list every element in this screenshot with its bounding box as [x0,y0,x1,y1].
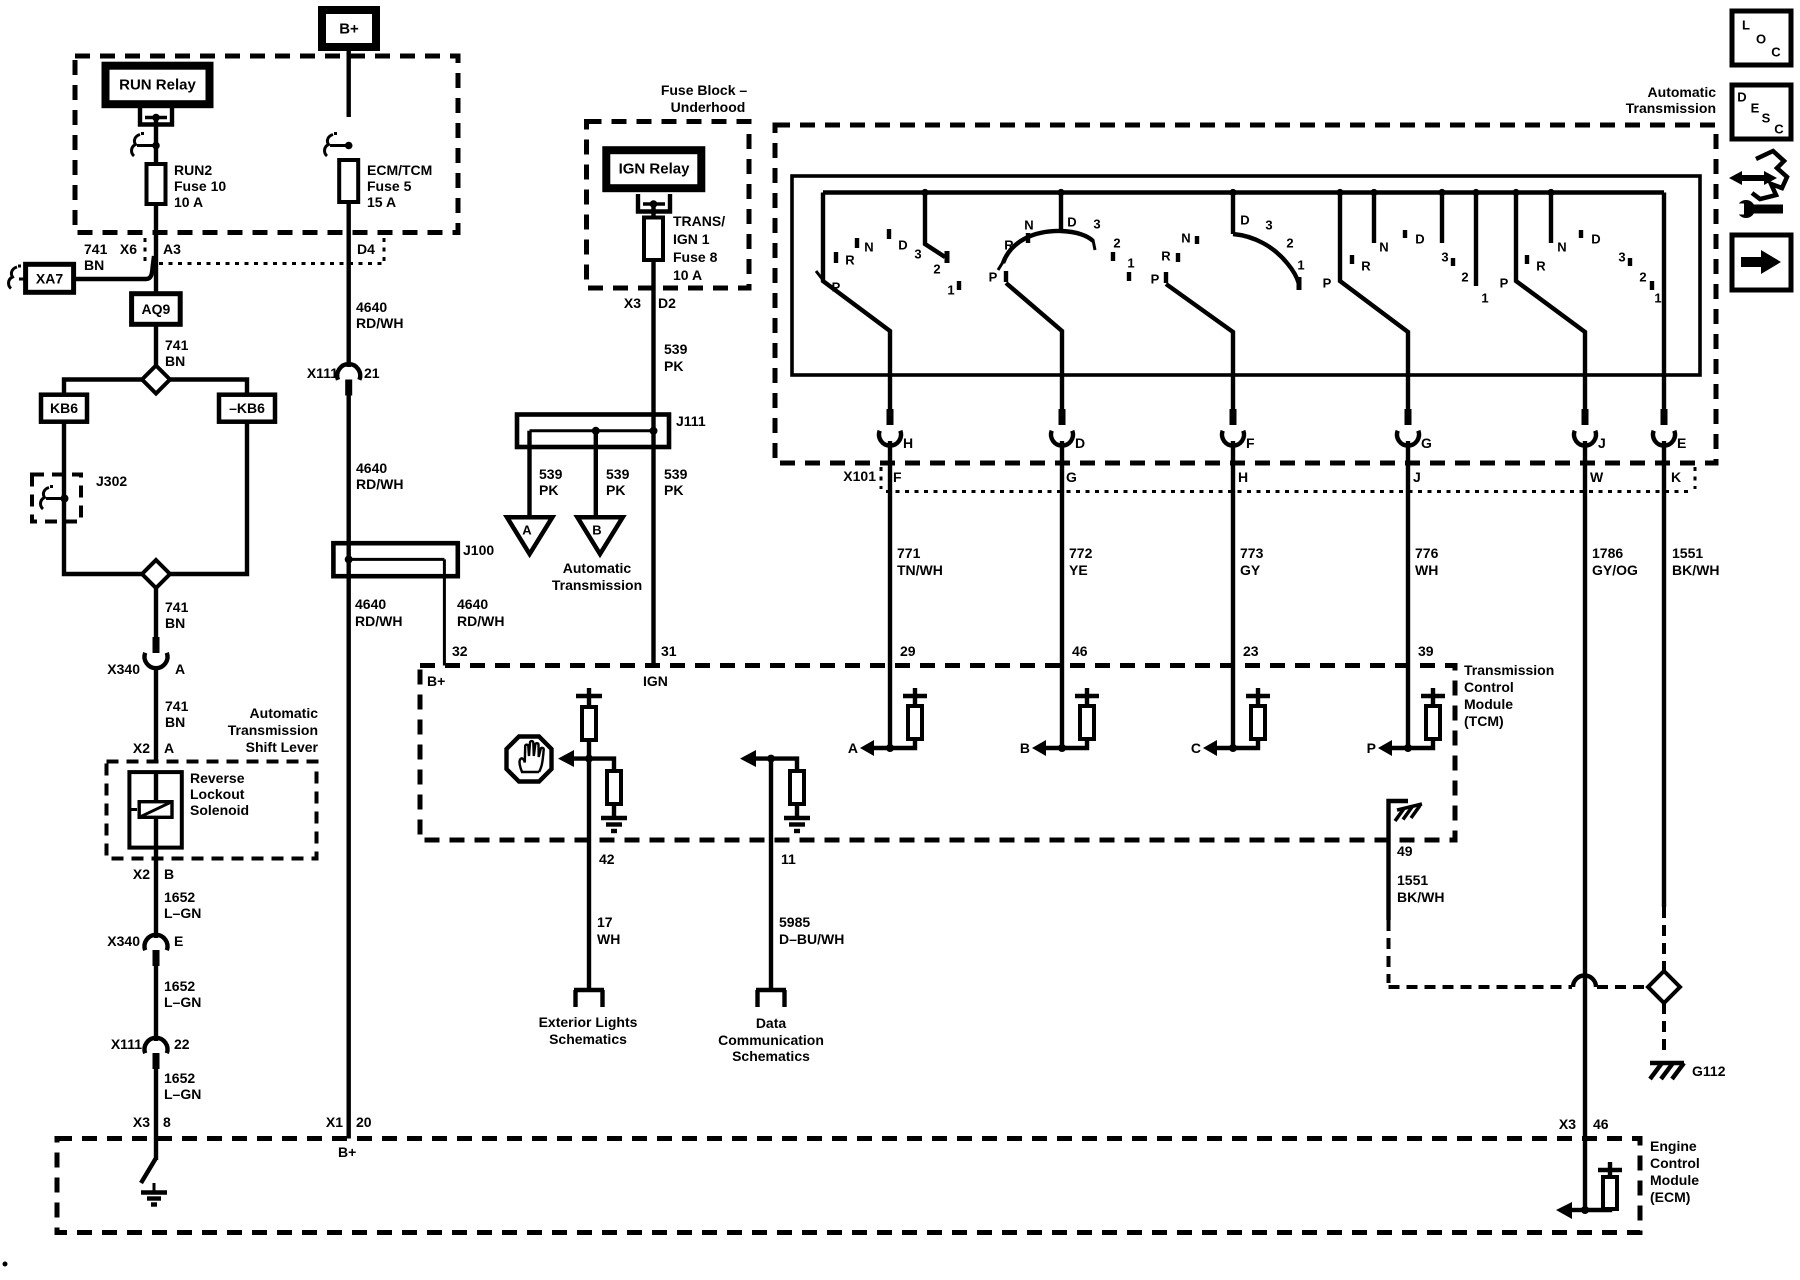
wire 539 PK main run to TCM pin 31 [651,447,655,666]
svg-text:N: N [1557,240,1566,255]
warning hand symbol (octagon) [507,737,552,782]
svg-text:Module: Module [1464,696,1513,712]
bus wire inside range switch [823,190,1664,194]
svg-text:TN/WH: TN/WH [897,562,943,578]
svg-text:Automatic: Automatic [1648,84,1717,100]
svg-text:S: S [1762,111,1771,126]
svg-text:X3: X3 [133,1114,150,1130]
switch group 4 position labels [1323,232,1489,306]
junction diamond (bottom) [142,560,170,588]
svg-text:KB6: KB6 [50,400,78,416]
wire 4640 RD/WH branch to TCM pin 32 [443,559,446,665]
svg-text:B+: B+ [427,673,445,689]
wire 772 YE (D to TCM 46) [1060,441,1064,666]
svg-text:21: 21 [364,365,380,381]
TCM input C (pin 23): pull-up resistor and arrow [1191,666,1270,757]
terminal fork to Exterior Lights Schematics [539,990,638,1047]
TCM chassis ground at pin 49 [1389,801,1423,840]
transmission range switch body (solid box) [792,176,1700,375]
relay IGN Relay label box [606,150,701,188]
svg-text:N: N [1379,240,1388,255]
svg-text:539: 539 [606,466,630,482]
wire 1652 L-GN below solenoid [154,848,158,938]
legend icon LOC [1732,11,1791,65]
svg-text:D: D [1075,435,1085,451]
svg-text:17: 17 [597,914,613,930]
svg-text:5985: 5985 [779,914,810,930]
off-page triangle A (to Automatic Transmission) [507,517,552,554]
fuse TRANS/IGN 1 Fuse 8 10 A [644,213,725,283]
inline connector X340 pin E [107,933,183,966]
wire 741 BN below X340-A [154,668,158,762]
svg-text:BN: BN [84,257,104,273]
switch group 3 position labels [1151,213,1305,287]
svg-text:R: R [1361,259,1371,274]
svg-text:Transmission: Transmission [1626,100,1716,116]
switch group 2 position labels [989,215,1135,285]
svg-text:A: A [175,661,185,677]
svg-text:46: 46 [1593,1116,1609,1132]
svg-text:3: 3 [1093,217,1100,232]
inline connector X340 pin A [107,637,185,677]
svg-text:4640: 4640 [355,596,386,612]
svg-text:X3: X3 [624,295,641,311]
svg-text:8: 8 [163,1114,171,1130]
svg-text:Module: Module [1650,1172,1699,1188]
svg-text:Transmission: Transmission [228,722,318,738]
wire 17 WH (pin 42 to exterior lights) [587,759,591,990]
svg-text:P: P [1323,276,1332,291]
svg-text:R: R [845,253,855,268]
svg-text:2: 2 [1639,270,1646,285]
wire KB6 to lower junction [64,422,142,574]
svg-text:4640: 4640 [457,596,488,612]
svg-text:X6: X6 [120,241,137,257]
svg-text:2: 2 [1113,236,1120,251]
svg-text:P: P [832,280,841,295]
svg-text:22: 22 [174,1036,190,1052]
transmission connector pin E [1653,409,1686,451]
svg-text:Transmission: Transmission [552,577,642,593]
svg-text:49: 49 [1397,843,1413,859]
svg-text:BN: BN [165,714,185,730]
transmission connector pin J [1574,409,1606,451]
svg-text:Solenoid: Solenoid [190,802,249,818]
switch group 1 moving blade [925,193,945,258]
switch group 2 wiper P to output D [1004,271,1008,282]
svg-text:4640: 4640 [356,299,387,315]
legend icon DESC [1732,85,1791,139]
svg-text:PK: PK [664,482,683,498]
junction diamond (top) [142,366,170,394]
svg-text:11: 11 [781,851,796,867]
svg-text:31: 31 [661,643,677,659]
switch group 3 wiper P to output F [1164,272,1168,283]
connector XA7 [9,264,74,292]
fuse ECM/TCM Fuse 5 15 A [339,160,432,210]
svg-text:20: 20 [356,1114,372,1130]
svg-text:Communication: Communication [718,1032,824,1048]
wire fuse RUN2 down to pin A3 [154,204,158,294]
wire 741 BN below AQ9 [154,324,158,366]
wire 1551 BK/WH from TCM pin 49 [1389,840,1650,987]
svg-text:P: P [1500,276,1509,291]
fuse RUN2 Fuse 10 10 A [147,162,227,210]
transmission connector pin H [879,409,913,451]
svg-text:TRANS/: TRANS/ [673,213,725,229]
wire 773 GY (F to TCM 23) [1231,441,1235,666]
svg-text:539: 539 [664,341,688,357]
svg-text:10 A: 10 A [174,194,203,210]
svg-text:H: H [903,435,913,451]
svg-text:X111: X111 [307,365,338,381]
svg-text:D2: D2 [658,295,676,311]
svg-text:GY: GY [1240,562,1261,578]
legend icon tools (arrows and wrench) [1729,151,1787,218]
svg-text:2: 2 [933,262,940,277]
svg-text:RUN2: RUN2 [174,162,212,178]
svg-text:RUN Relay: RUN Relay [119,77,196,94]
svg-text:N: N [1181,231,1190,246]
switch group 5 position labels [1500,232,1662,306]
svg-text:539: 539 [539,466,563,482]
svg-text:WH: WH [1415,562,1438,578]
relay terminal bracket (IGN relay) [638,194,670,212]
terminal fork to Data Communication Schematics [718,990,824,1064]
svg-text:C: C [1771,45,1781,60]
module Engine Control Module ECM (dashed box) [57,1138,1700,1233]
transmission connector pin D [1051,409,1085,451]
relay RUN Relay label box [106,66,210,105]
TCM output 42: resistor from internal rail, warning output [558,688,602,767]
svg-text:AQ9: AQ9 [142,301,171,317]
svg-text:RD/WH: RD/WH [356,476,403,492]
svg-text:23: 23 [1243,643,1259,659]
TCM output 11: arrow and ground resistor [740,750,810,831]
svg-text:X101: X101 [843,468,876,484]
svg-text:X3: X3 [1559,1116,1576,1132]
svg-text:772: 772 [1069,545,1093,561]
fuse clip symbol at RUN2 fuse [132,134,160,157]
splice diamond on 1551 BK/WH [1648,971,1680,1003]
svg-text:R: R [1004,238,1014,253]
svg-text:741: 741 [165,698,189,714]
wire 4640 RD/WH main run to ECM X1-20 [347,576,351,1139]
svg-text:Fuse 8: Fuse 8 [673,249,718,265]
svg-text:R: R [1536,259,1546,274]
wire -KB6 to lower junction [170,422,247,574]
wire IGN relay to fuse 8 [651,204,655,218]
fuse block - underhood (dashed) [587,82,750,288]
svg-text:G: G [1066,469,1077,485]
svg-text:776: 776 [1415,545,1439,561]
svg-text:N: N [1024,218,1033,233]
switch group 1 contact ticks [836,229,959,290]
svg-text:Fuse Block –: Fuse Block – [661,82,748,98]
svg-text:Schematics: Schematics [732,1048,810,1064]
splice AQ9 [132,294,181,325]
svg-text:1551: 1551 [1397,872,1428,888]
svg-text:PK: PK [606,482,625,498]
svg-text:B+: B+ [339,21,359,38]
switch contact to ground inside ECM [141,1158,167,1205]
connector X101 face line [843,467,1695,492]
wire 1652 L-GN below X111-22 [154,1068,158,1160]
svg-text:32: 32 [452,643,468,659]
junction dots on bus [921,189,1554,196]
switch group 3 feed drop and travel arc [1231,193,1235,235]
svg-text:D: D [898,238,907,253]
svg-text:P: P [1151,272,1160,287]
fuse block (left, dashed) [75,56,458,233]
svg-text:B: B [592,523,601,538]
svg-text:741: 741 [165,337,189,353]
svg-text:R: R [1161,249,1171,264]
svg-text:N: N [864,240,873,255]
svg-text:Lockout: Lockout [190,786,245,802]
switch group 4 contact ticks [1352,230,1453,266]
svg-text:A: A [522,523,532,538]
splice pack J100 [333,542,494,576]
svg-text:3: 3 [1265,218,1272,233]
svg-text:1652: 1652 [164,889,195,905]
svg-text:X111: X111 [111,1036,142,1052]
svg-text:BK/WH: BK/WH [1397,889,1444,905]
wire 539 PK branch to triangle B [594,431,598,517]
node KB6 [41,395,87,422]
svg-text:2: 2 [1286,236,1293,251]
component Automatic Transmission (dashed box) [775,84,1716,463]
svg-text:D: D [1067,215,1076,230]
svg-text:E: E [174,933,183,949]
svg-text:XA7: XA7 [36,271,63,287]
svg-text:BN: BN [165,353,185,369]
svg-text:K: K [1671,469,1681,485]
wire contact 1 bus feed to output E [1662,193,1666,412]
svg-text:RD/WH: RD/WH [457,613,504,629]
svg-text:GY/OG: GY/OG [1592,562,1638,578]
svg-text:741: 741 [165,599,189,615]
svg-text:J100: J100 [463,542,494,558]
svg-text:L–GN: L–GN [164,994,201,1010]
svg-text:A: A [848,740,858,756]
wire branch to -KB6 [170,380,247,395]
svg-text:1551: 1551 [1672,545,1703,561]
svg-text:P: P [989,270,998,285]
svg-text:F: F [893,469,902,485]
svg-text:39: 39 [1418,643,1434,659]
svg-text:Automatic: Automatic [563,560,632,576]
switch group 2 travel arc [1003,231,1093,263]
svg-text:Shift Lever: Shift Lever [246,739,319,755]
fuse clip symbol at ECM/TCM fuse [325,134,353,157]
svg-text:L: L [1742,18,1750,33]
svg-text:D: D [1415,232,1424,247]
svg-text:A3: A3 [163,241,181,257]
switch group 4 contact drops [1372,193,1376,244]
ground G112 (chassis) [1650,1063,1726,1079]
svg-text:E: E [1677,435,1686,451]
svg-text:O: O [1756,32,1766,47]
svg-text:1786: 1786 [1592,545,1623,561]
svg-text:RD/WH: RD/WH [356,315,403,331]
wire 771 TN/WH (H to TCM 29) [888,441,892,666]
svg-text:(ECM): (ECM) [1650,1189,1690,1205]
svg-text:3: 3 [1618,250,1625,265]
svg-text:J302: J302 [96,473,127,489]
wire 776 WH (G to TCM 39) [1406,441,1410,666]
svg-text:3: 3 [1441,250,1448,265]
svg-text:IGN: IGN [643,673,668,689]
node -KB6 [219,395,275,422]
svg-text:Underhood: Underhood [671,99,746,115]
connector X101 pin letters F G H J W K [893,469,1681,485]
svg-text:G: G [1421,435,1432,451]
svg-text:10 A: 10 A [673,267,702,283]
svg-text:29: 29 [900,643,916,659]
TCM ground resistor at 42 node [589,759,627,831]
svg-text:(TCM): (TCM) [1464,713,1504,729]
svg-text:X1: X1 [326,1114,343,1130]
splice J302 (dashed box) [32,473,127,522]
switch group 5 contact ticks [1527,230,1652,290]
svg-text:C: C [1191,740,1201,756]
svg-text:Fuse 5: Fuse 5 [367,178,412,194]
svg-text:B: B [1020,740,1030,756]
svg-text:X340: X340 [107,661,140,677]
svg-text:15 A: 15 A [367,194,396,210]
wire 741 BN below junction [154,588,158,639]
svg-text:PK: PK [539,482,558,498]
wire RUN relay to fuse clip [154,118,158,165]
svg-text:WH: WH [597,931,620,947]
svg-text:BN: BN [165,615,185,631]
svg-text:E: E [1751,101,1760,116]
svg-text:H: H [1238,469,1248,485]
svg-text:4640: 4640 [356,460,387,476]
switch group 2 feed drop [1059,193,1063,234]
svg-text:RD/WH: RD/WH [355,613,402,629]
svg-text:Fuse 10: Fuse 10 [174,178,226,194]
legend icon forward arrow [1732,235,1791,290]
svg-text:J111: J111 [676,413,706,429]
svg-text:Control: Control [1464,679,1514,695]
svg-text:YE: YE [1069,562,1088,578]
switch group 1 wiper tip tick [816,271,823,280]
svg-text:C: C [1774,122,1784,137]
svg-text:771: 771 [897,545,921,561]
connector face line under fuse block [159,262,384,265]
wire 539 PK from fuse 8 to J111 [651,260,655,415]
svg-text:P: P [1367,740,1376,756]
switch group 1 wiper P to output H [823,193,890,412]
relay terminal bracket (RUN relay) [140,107,172,125]
wire 741 BN from XA7 joining A3 wire [74,256,154,279]
svg-text:IGN Relay: IGN Relay [619,161,691,178]
wire 4640 RD/WH to J100 [347,395,351,546]
wire from B+ to ECM/TCM fuse [347,47,351,117]
svg-text:A: A [164,740,174,756]
svg-text:–KB6: –KB6 [229,400,265,416]
dashed wire 1551 BK/WH to splice diamond [1662,907,1666,970]
switch group 5 contact drop [1549,193,1553,244]
svg-text:D4: D4 [357,241,375,257]
page mark bottom left [3,1262,8,1267]
svg-text:2: 2 [1461,270,1468,285]
svg-text:G112: G112 [1692,1063,1726,1079]
svg-text:539: 539 [664,466,688,482]
switch group 2 contact ticks [1028,233,1129,281]
svg-text:BK/WH: BK/WH [1672,562,1719,578]
svg-text:X2: X2 [133,866,150,882]
svg-text:F: F [1246,435,1255,451]
svg-text:Data: Data [756,1015,787,1031]
svg-text:1: 1 [1297,258,1304,273]
svg-text:J: J [1598,435,1606,451]
svg-text:1: 1 [1654,291,1661,306]
svg-text:1652: 1652 [164,978,195,994]
svg-text:X340: X340 [107,933,140,949]
svg-text:ECM/TCM: ECM/TCM [367,162,432,178]
svg-text:1: 1 [1481,291,1488,306]
connector labels X6 / A3 with wire 741 BN [84,238,181,273]
svg-text:D: D [1591,232,1600,247]
ECM input: resistor and arrow at X3-46 [1556,1139,1622,1220]
svg-text:Control: Control [1650,1155,1700,1171]
splice pack J111 [517,413,706,447]
svg-text:B: B [164,866,174,882]
svg-text:L–GN: L–GN [164,1086,201,1102]
svg-text:Automatic: Automatic [250,705,319,721]
inline connector X111 pin 21 [307,364,380,395]
TCM input P (pin 39): pull-up resistor and arrow [1367,666,1445,757]
switch group 3 contact ticks [1178,236,1197,262]
svg-text:3: 3 [914,247,921,262]
svg-text:Reverse: Reverse [190,770,245,786]
svg-text:IGN 1: IGN 1 [673,231,710,247]
transmission connector pin G [1397,409,1432,451]
svg-text:42: 42 [599,851,615,867]
transmission connector pin F [1222,409,1255,451]
off-page triangle B (to Automatic Transmission) [577,517,622,554]
svg-text:PK: PK [664,358,683,374]
component Automatic Transmission Shift Lever (dashed box) [107,762,317,859]
svg-text:1: 1 [947,283,954,298]
svg-text:D–BU/WH: D–BU/WH [779,931,844,947]
wire 539 PK branch to triangle A [527,431,531,517]
svg-text:Transmission: Transmission [1464,662,1554,678]
svg-text:773: 773 [1240,545,1264,561]
svg-text:Exterior Lights: Exterior Lights [539,1014,638,1030]
svg-text:46: 46 [1072,643,1088,659]
wire 1551 BK/WH (E to splice diamond) [1662,441,1666,907]
wire 5985 D-BU/WH (pin 11 to data communication) [769,759,773,990]
svg-text:Engine: Engine [1650,1138,1697,1154]
dashed wire diamond to G112 [1662,1003,1666,1057]
svg-text:D: D [1737,90,1746,105]
svg-text:1652: 1652 [164,1070,195,1086]
TCM input B (pin 46): pull-up resistor and arrow [1020,666,1099,757]
wire 1652 L-GN below X340-E [154,965,158,1041]
solenoid Reverse Lockout Solenoid [129,770,249,848]
svg-text:B+: B+ [338,1144,356,1160]
switch group 4 wiper feed to output G [1340,193,1408,412]
wire 1786 GY/OG (J to ECM X3-46) [1583,441,1587,1139]
switch group 1 position labels P R N D 3 2 1 [832,238,955,298]
svg-text:741: 741 [84,241,108,257]
module Transmission Control Module TCM (dashed box) [420,662,1554,840]
wire branch to KB6 [64,380,142,395]
